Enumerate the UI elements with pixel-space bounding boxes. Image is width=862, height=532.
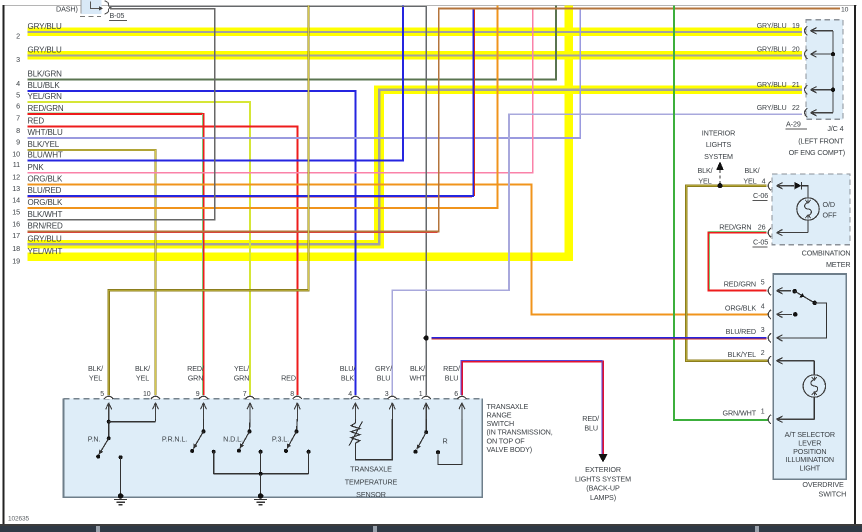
svg-text:2: 2 [16, 31, 20, 40]
wire 9 WHT/BLU [28, 9, 581, 138]
svg-text:GRY/BLU: GRY/BLU [757, 82, 787, 89]
transaxle range switch pin 8 connector [293, 396, 302, 399]
transaxle range switch pin 7 connector [245, 396, 254, 399]
transaxle range switch pin 6 connector [457, 396, 466, 399]
svg-text:LIGHTS SYSTEM: LIGHTS SYSTEM [575, 474, 631, 483]
svg-text:9: 9 [196, 391, 200, 398]
svg-text:BLU/RED: BLU/RED [28, 186, 62, 195]
P.R.N.L. contact [212, 450, 216, 474]
svg-text:GRY/BLU: GRY/BLU [28, 46, 62, 55]
svg-text:SYSTEM: SYSTEM [704, 152, 733, 161]
node 18 GRY/BLU label [12, 235, 62, 253]
J/C4 pin 19 label [757, 23, 800, 30]
node 10 BLK/YEL label [12, 140, 60, 158]
O/D OFF label [823, 200, 838, 219]
pin 10 arrow [153, 403, 159, 419]
pin 3 number [385, 391, 389, 398]
node 5 BLU/BLK label [16, 81, 60, 99]
svg-text:5: 5 [16, 90, 20, 99]
transaxle range switch pin 1 connector [422, 396, 431, 399]
wire BLK/YEL combination meter pin 4 to overdrive pin 2 [686, 186, 768, 361]
wire BLU/RED branch to overdrive pin 3 [432, 338, 767, 339]
svg-text:ORG/BLK: ORG/BLK [28, 175, 64, 184]
wire 18 gray core [28, 89, 803, 246]
svg-text:WHT: WHT [409, 374, 426, 383]
P.N. contact to ground [114, 455, 127, 505]
svg-text:A-29: A-29 [786, 120, 801, 129]
switch P.N. [96, 419, 155, 459]
wire RED/BLU pin 6 to exterior lights [461, 361, 603, 455]
switch R [414, 419, 462, 465]
pin 5 number [100, 391, 104, 398]
exterior lights system caption [575, 465, 631, 502]
J/C4 pin 21 label [757, 82, 800, 89]
svg-text:3: 3 [385, 391, 389, 398]
svg-text:3: 3 [16, 55, 20, 64]
overdrive pin 4 label [725, 303, 765, 312]
svg-text:(BACK-UP: (BACK-UP [586, 484, 620, 493]
svg-text:BLK: BLK [341, 374, 355, 383]
overdrive caption inside box [785, 430, 835, 473]
J/C4 caption [789, 124, 845, 157]
svg-text:4: 4 [762, 176, 766, 185]
overdrive pin 2 label [728, 350, 765, 359]
svg-text:GRY/: GRY/ [375, 364, 392, 373]
transaxle range switch pin 3 connector [388, 396, 397, 399]
svg-text:GRY/BLU: GRY/BLU [757, 105, 787, 112]
svg-text:R: R [442, 437, 447, 446]
svg-text:4: 4 [761, 303, 765, 310]
N.D.L. contact [259, 450, 263, 474]
overdrive illumination lamp circuit [777, 358, 826, 423]
svg-text:4: 4 [348, 391, 352, 398]
svg-text:YEL: YEL [743, 176, 756, 185]
svg-text:RED: RED [28, 117, 45, 126]
svg-text:GRY/BLU: GRY/BLU [28, 235, 62, 244]
wire 3 GRY/BLU yellow band [28, 51, 803, 59]
svg-text:11: 11 [13, 160, 20, 169]
svg-text:INTERIOR: INTERIOR [702, 129, 735, 138]
svg-text:O/D: O/D [823, 200, 835, 209]
svg-text:8: 8 [290, 391, 294, 398]
svg-text:21: 21 [792, 82, 800, 89]
svg-text:BLK/YEL: BLK/YEL [728, 350, 756, 359]
svg-text:19: 19 [792, 23, 800, 30]
svg-text:BLK/: BLK/ [88, 364, 103, 373]
pin 6 arrow [459, 403, 465, 419]
pin 1 arrow [423, 403, 429, 419]
svg-text:20: 20 [792, 47, 800, 54]
node 11 BLU/WHT label [13, 151, 63, 169]
svg-text:LIGHTS: LIGHTS [706, 140, 732, 149]
svg-text:SENSOR: SENSOR [356, 490, 386, 499]
svg-text:6: 6 [16, 102, 20, 111]
svg-text:N.D.L.: N.D.L. [223, 435, 243, 444]
svg-text:18: 18 [12, 244, 20, 253]
pin 5 arrow [106, 403, 112, 419]
wire 14 BLU/RED [28, 9, 475, 197]
overdrive pin 1 GRN/WHT connector [768, 415, 771, 424]
label C-06 [753, 191, 769, 200]
pin label RED/BLU [443, 364, 460, 382]
svg-text:RED/: RED/ [187, 364, 204, 373]
junction connector J/C 4 box [806, 20, 843, 120]
svg-text:16: 16 [12, 219, 20, 228]
wire RED/GRN combination meter pin 26 to overdrive pin 5 [708, 232, 766, 291]
svg-text:ORG/BLK: ORG/BLK [28, 198, 64, 207]
svg-text:P.N.: P.N. [88, 435, 101, 444]
P.3.L. label [272, 435, 289, 444]
svg-text:RED/GRN: RED/GRN [719, 223, 751, 232]
pin label GRY/BLU [375, 364, 392, 382]
pin 8 arrow [294, 403, 300, 419]
wire 17 BRN/RED (to off-page 10) [28, 9, 841, 233]
svg-text:METER: METER [826, 260, 851, 269]
svg-text:GRY/BLU: GRY/BLU [757, 23, 787, 30]
wire GRN/WHT (to overdrive pin 1) [674, 5, 769, 420]
pin 6 number [454, 391, 458, 398]
svg-text:14: 14 [12, 196, 20, 205]
svg-text:J/C 4: J/C 4 [827, 124, 843, 133]
wire 19 YEL/WHT yellow band [28, 5, 574, 261]
svg-text:TEMPERATURE: TEMPERATURE [345, 477, 398, 486]
svg-text:RED/GRN: RED/GRN [28, 104, 64, 113]
svg-text:12: 12 [12, 172, 20, 181]
combination meter box [772, 174, 850, 245]
J/C4 pin 20 label [757, 47, 800, 54]
node 13 ORG/BLK label [12, 175, 63, 193]
node 9 WHT/BLU label [16, 128, 63, 146]
svg-text:OVERDRIVE: OVERDRIVE [802, 480, 844, 489]
svg-text:LIGHT: LIGHT [800, 464, 821, 473]
svg-text:BLK/WHT: BLK/WHT [28, 210, 63, 219]
pin label BLK/WHT [409, 364, 426, 382]
diagram id 102635 [8, 516, 29, 523]
svg-text:LAMPS): LAMPS) [590, 493, 616, 502]
svg-text:C-06: C-06 [753, 191, 768, 200]
connector B-05 (dash) [56, 0, 127, 21]
switch P.R.N.L. [190, 419, 205, 453]
svg-text:OFF: OFF [823, 210, 838, 219]
P.3.L. contact [307, 450, 311, 474]
label C-05 [753, 237, 769, 246]
node 3 GRY/BLU label [16, 46, 62, 64]
RED/BLU label [582, 414, 599, 432]
svg-text:8: 8 [16, 126, 20, 135]
N.D.L. label [223, 435, 243, 444]
combination meter pin 4 connector C-06 [768, 181, 791, 190]
exterior lights arrow [598, 454, 607, 463]
pin 10 number [143, 391, 151, 398]
svg-text:GRY/BLU: GRY/BLU [757, 47, 787, 54]
svg-text:9: 9 [16, 138, 20, 147]
J/C4 pin 19 connector [805, 26, 833, 35]
svg-text:B-05: B-05 [110, 11, 125, 20]
pin 7 arrow [247, 403, 253, 419]
svg-text:C-05: C-05 [753, 237, 768, 246]
overdrive pin 4 ORG/BLK connector [768, 310, 771, 319]
wire 2 GRY/BLU yellow band [28, 28, 803, 36]
svg-text:BLU: BLU [377, 374, 391, 383]
wire BLK/YEL pin 5 riser [109, 5, 309, 395]
pin label YEL/GRN [234, 364, 250, 382]
svg-text:BLU/WHT: BLU/WHT [28, 151, 63, 160]
svg-text:5: 5 [100, 391, 104, 398]
overdrive switch box [773, 274, 846, 479]
wire 18 GRY/BLU yellow band (to J/C4 pin 21) [28, 86, 803, 249]
pin label BLK/YEL [88, 364, 103, 382]
diode [791, 182, 808, 198]
svg-text:BLK/: BLK/ [410, 364, 425, 373]
svg-text:SWITCH: SWITCH [819, 490, 847, 499]
transaxle range switch box [64, 399, 483, 498]
label A-29 [786, 120, 808, 129]
node 4 BLK/GRN label [16, 70, 62, 88]
interior lights system label and arrow [702, 129, 735, 184]
svg-text:GRY/BLU: GRY/BLU [28, 22, 62, 31]
node 6 YEL/GRN label [16, 92, 62, 110]
transaxle range switch pin 10 connector [151, 396, 160, 399]
svg-text:26: 26 [758, 223, 766, 232]
wire 15 ORG/BLK (upper) [28, 5, 498, 208]
wire 6 YEL/GRN (to pin 7) [28, 102, 251, 395]
J/C4 pin 21 connector [805, 85, 836, 94]
svg-text:YEL/GRN: YEL/GRN [28, 92, 63, 101]
wire 7 RED/GRN (to pin 9) [28, 113, 204, 395]
pin 8 number [290, 391, 294, 398]
svg-text:WHT/BLU: WHT/BLU [28, 128, 64, 137]
svg-text:BLU: BLU [584, 423, 598, 432]
svg-text:6: 6 [454, 391, 458, 398]
svg-text:RED: RED [281, 374, 296, 383]
svg-text:1: 1 [761, 408, 765, 415]
svg-text:BLK/: BLK/ [744, 166, 759, 175]
node 12 PNK label [12, 163, 44, 181]
pin 7 number [243, 391, 247, 398]
svg-text:EXTERIOR: EXTERIOR [585, 465, 621, 474]
svg-text:GRN: GRN [234, 374, 250, 383]
J/C4 pin 22 connector [805, 108, 833, 117]
svg-text:P.3.L.: P.3.L. [272, 435, 289, 444]
overdrive pin 5 label [724, 280, 765, 289]
svg-text:YEL/: YEL/ [234, 364, 249, 373]
node 19 YEL/WHT label [12, 247, 62, 265]
node BLU/RED splice dot [424, 335, 429, 340]
svg-text:YEL: YEL [698, 176, 711, 185]
transaxle range switch pin 4 connector [351, 396, 360, 399]
wire 13 ORG/BLK (to overdrive pin 4) [28, 184, 769, 314]
svg-text:COMBINATION: COMBINATION [802, 248, 851, 257]
pin 9 arrow [201, 403, 207, 419]
pin 4 arrow [352, 403, 358, 419]
overdrive pin 5 RED/GRN connector [768, 286, 771, 295]
svg-text:2: 2 [761, 350, 765, 357]
overdrive pin 1 label [723, 408, 765, 417]
svg-text:BLK/: BLK/ [697, 166, 712, 175]
svg-text:10: 10 [143, 391, 151, 398]
overdrive switch contacts [777, 288, 827, 341]
svg-text:BRN/RED: BRN/RED [28, 222, 64, 231]
svg-text:BLU/: BLU/ [340, 364, 356, 373]
wire 11 BLU/WHT [28, 5, 403, 160]
svg-text:BLU: BLU [445, 374, 459, 383]
svg-text:PNK: PNK [28, 163, 45, 172]
svg-text:RED/: RED/ [582, 414, 599, 423]
wire BLK/WHT B-05 to pin 1 [110, 6, 426, 395]
svg-text:7: 7 [16, 114, 20, 123]
pin 1 number [419, 391, 423, 398]
O/D OFF indicator lamp [797, 198, 819, 220]
transaxle temperature sensor label [345, 464, 398, 499]
BLK/YEL labels at junction [697, 166, 765, 185]
svg-text:10: 10 [841, 7, 849, 14]
svg-text:13: 13 [12, 184, 20, 193]
svg-text:DASH): DASH) [56, 5, 78, 14]
svg-text:17: 17 [12, 231, 20, 240]
pin label BLU/BLK [340, 364, 356, 382]
ground bus [214, 472, 309, 495]
R label [442, 437, 447, 446]
wire 8 RED (to pin 8) [28, 126, 298, 394]
J/C4 pin 22 label [757, 105, 800, 112]
svg-text:ORG/BLK: ORG/BLK [725, 303, 756, 312]
pin label RED/GRN [187, 364, 204, 382]
svg-text:BLK/GRN: BLK/GRN [28, 70, 63, 79]
svg-text:GRN: GRN [188, 374, 204, 383]
svg-text:GRN/WHT: GRN/WHT [723, 408, 757, 417]
svg-text:TRANSAXLE: TRANSAXLE [350, 464, 392, 473]
pin 3 arrow [389, 403, 395, 419]
pin 4 number [348, 391, 352, 398]
overdrive pin 3 BLU/RED connector [768, 333, 771, 342]
wire GRY/BLU J/C4 pin 22 to pin 3 [392, 114, 802, 395]
node 2 GRY/BLU label [16, 22, 62, 40]
P.N. label [88, 435, 101, 444]
J/C4 pin 20 connector [805, 50, 836, 59]
svg-text:22: 22 [792, 105, 800, 112]
svg-text:15: 15 [12, 208, 20, 217]
svg-text:BLK/: BLK/ [135, 364, 150, 373]
svg-text:10: 10 [12, 150, 20, 159]
svg-text:102635: 102635 [8, 516, 29, 523]
svg-text:YEL: YEL [89, 374, 102, 383]
RED/GRN 26 label [719, 223, 765, 232]
node 7 RED/GRN label [16, 104, 64, 122]
wire 2 gray core [28, 31, 803, 33]
transaxle temperature sensor resistor [349, 419, 392, 460]
node BLK/YEL junction dot [717, 183, 722, 188]
svg-text:7: 7 [243, 391, 247, 398]
wire 10 BLK/YEL (to pin 10) [28, 150, 156, 395]
wire 3 gray core [28, 54, 803, 56]
svg-text:1: 1 [419, 391, 423, 398]
pin label RED [281, 374, 296, 383]
node 14 BLU/RED label [12, 186, 61, 204]
svg-text:19: 19 [12, 256, 20, 265]
svg-text:OF ENG COMPT): OF ENG COMPT) [789, 148, 845, 157]
P.R.N.L. label [162, 435, 187, 444]
transaxle range switch pin 9 connector [199, 396, 208, 399]
svg-text:RED/GRN: RED/GRN [724, 280, 756, 289]
svg-text:YEL: YEL [136, 374, 149, 383]
wire 5 BLU/BLK (to pin 4) [28, 91, 356, 395]
transaxle range switch pin 5 connector [104, 396, 113, 399]
node 16 BLK/WHT label [12, 210, 62, 228]
overdrive pin 2 BLK/YEL connector [768, 356, 771, 365]
svg-text:BLU/RED: BLU/RED [726, 327, 756, 336]
svg-text:VALVE BODY): VALVE BODY) [487, 445, 533, 454]
wire 16 BLK/WHT (via B-05) [28, 9, 215, 220]
combination meter caption [802, 248, 851, 269]
svg-text:5: 5 [761, 280, 765, 287]
node 15 ORG/BLK label [12, 198, 63, 216]
overdrive pin 3 label [726, 327, 765, 336]
overdrive switch caption [802, 480, 846, 499]
wire 4 BLK/GRN [28, 5, 557, 79]
node 8 RED label [16, 117, 44, 135]
svg-text:YEL/WHT: YEL/WHT [28, 247, 63, 256]
svg-text:RED/: RED/ [443, 364, 460, 373]
J/C4 internal bus [832, 31, 834, 113]
ground 2 [254, 493, 267, 505]
pin label BLK/YEL [135, 364, 150, 382]
transaxle range switch caption [487, 402, 553, 454]
switch N.D.L. [237, 419, 252, 453]
svg-text:(LEFT FRONT: (LEFT FRONT [798, 136, 844, 145]
svg-text:BLU/BLK: BLU/BLK [28, 81, 61, 90]
svg-text:P.R.N.L.: P.R.N.L. [162, 435, 187, 444]
svg-text:3: 3 [761, 327, 765, 334]
wire 12 PNK [28, 9, 533, 173]
node 10 off-page label [841, 7, 849, 14]
pin 9 number [196, 391, 200, 398]
svg-text:4: 4 [16, 79, 20, 88]
lamp to pin 26 [768, 220, 808, 237]
switch P.3.L. [284, 419, 299, 453]
node 17 BRN/RED label [12, 222, 63, 240]
svg-text:BLK/YEL: BLK/YEL [28, 140, 60, 149]
